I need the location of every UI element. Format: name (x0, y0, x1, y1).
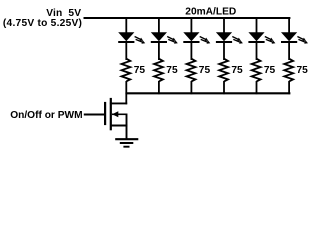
svg-text:75: 75 (231, 65, 243, 76)
wire branch 2 mid (158, 43, 160, 60)
svg-text:75: 75 (297, 65, 309, 76)
wire branch 4 mid (223, 43, 225, 60)
wire bottom rail (drain net) (126, 92, 290, 94)
wire branch 6 anode drop (288, 17, 290, 33)
gate bar (104, 102, 106, 125)
resistor R6 (284, 59, 293, 82)
wire branch 1 anode drop (125, 17, 127, 33)
wire source drop (126, 114, 128, 139)
resistor R1 (122, 59, 131, 82)
wire branch 1 cathode bottom (125, 81, 127, 94)
wire branch 6 cathode bottom (288, 81, 290, 94)
svg-text:75: 75 (199, 65, 211, 76)
wire gate lead (84, 114, 105, 116)
LED D6 (281, 32, 308, 43)
wire drain drop (125, 93, 127, 105)
wire top rail Vin (84, 17, 291, 19)
resistor R3 (187, 59, 196, 82)
LED D3 (183, 32, 210, 43)
channel bar (110, 98, 112, 130)
svg-text:20mA/LED: 20mA/LED (185, 7, 236, 18)
wire branch 5 anode drop (256, 17, 258, 33)
resistor R2 (154, 59, 163, 82)
svg-text:75: 75 (166, 65, 178, 76)
wire branch 1 mid (125, 43, 127, 60)
svg-text:75: 75 (134, 65, 146, 76)
wire branch 2 anode drop (158, 17, 160, 33)
LED D2 (151, 32, 178, 43)
LED D4 (216, 32, 243, 43)
LED D1 (118, 32, 145, 43)
drain stub (110, 102, 127, 104)
ground (115, 139, 138, 147)
wire branch 4 cathode bottom (223, 81, 225, 94)
resistor R5 (252, 59, 261, 82)
svg-text:On/Off or PWM: On/Off or PWM (10, 110, 82, 121)
transistor Q1 (NMOS) (84, 93, 128, 139)
svg-text:75: 75 (264, 65, 276, 76)
wire branch 6 mid (288, 43, 290, 60)
wire branch 2 cathode bottom (158, 81, 160, 94)
svg-text:(4.75V to 5.25V): (4.75V to 5.25V) (3, 18, 82, 29)
wire branch 3 anode drop (190, 17, 192, 33)
source stub (111, 125, 128, 127)
wire branch 3 mid (190, 43, 192, 60)
resistor R4 (219, 59, 228, 82)
wire branch 5 cathode bottom (256, 81, 258, 94)
body stub with arrow (112, 113, 127, 115)
wire branch 5 mid (256, 43, 258, 60)
wire branch 4 anode drop (223, 17, 225, 33)
LED D5 (248, 32, 275, 43)
wire branch 3 cathode bottom (190, 81, 192, 94)
